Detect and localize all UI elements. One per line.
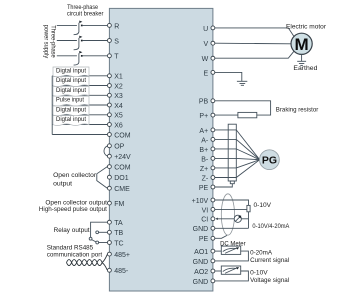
wire A- to PG [215, 139, 260, 159]
terminal Z- [211, 176, 215, 180]
digital input bus [51, 76, 53, 135]
terminal X6 [107, 123, 111, 127]
svg-text:GND: GND [193, 226, 209, 233]
current source meter [234, 215, 241, 222]
svg-text:485-: 485- [114, 268, 129, 275]
svg-text:communication port: communication port [47, 252, 103, 259]
right terminals circles [211, 26, 215, 283]
terminal TB [107, 230, 111, 234]
left terminal labels [114, 23, 131, 275]
wire B+ to PG [215, 149, 260, 160]
svg-text:0-10V/4-20mA: 0-10V/4-20mA [252, 223, 289, 230]
banner Digtal input X2 [53, 77, 89, 87]
wire resistor to GND [248, 212, 250, 229]
svg-text:Braking resistor: Braking resistor [276, 107, 319, 114]
terminal COM [107, 133, 111, 137]
wire P+ [215, 114, 238, 116]
shield stub [230, 181, 234, 184]
svg-text:Relay output: Relay output [54, 227, 90, 234]
wire CI [217, 218, 235, 220]
CI arrowhead [215, 218, 217, 220]
terminal GND3 [211, 279, 215, 283]
terminal PE [211, 185, 215, 189]
wire E to earth [215, 72, 242, 81]
svg-text:CME: CME [114, 186, 130, 193]
terminal FM [107, 201, 111, 205]
wire Z+ to PG [215, 160, 260, 168]
svg-text:V: V [204, 41, 209, 48]
wire U to motor [215, 28, 294, 37]
wire S supply [57, 40, 77, 42]
svg-text:CI: CI [201, 217, 208, 224]
terminal X4 [107, 103, 111, 107]
inverter main block U1 [109, 8, 212, 291]
svg-text:P+: P+ [199, 113, 208, 120]
meter box AO2 [221, 266, 240, 274]
terminal PB [211, 99, 215, 103]
svg-text:AO2: AO2 [194, 269, 208, 276]
terminal U [211, 26, 215, 30]
terminal AO2 [211, 269, 215, 273]
electric motor M [291, 33, 312, 54]
terminal 485+ [107, 252, 111, 256]
svg-text:0-10V: 0-10V [250, 269, 268, 276]
wire COM [52, 134, 107, 136]
svg-text:R: R [114, 23, 119, 30]
encoder PG [260, 150, 280, 170]
wire to 485- [102, 263, 107, 270]
svg-text:+24V: +24V [114, 154, 131, 161]
svg-text:GND: GND [193, 259, 209, 266]
svg-text:circuit breaker: circuit breaker [67, 11, 104, 18]
svg-text:COM: COM [114, 132, 131, 139]
svg-text:Pulse input: Pulse input [56, 97, 84, 104]
svg-text:B+: B+ [199, 147, 208, 154]
svg-text:AO1: AO1 [194, 249, 208, 256]
svg-text:TC: TC [114, 240, 123, 247]
svg-text:VI: VI [202, 207, 209, 214]
svg-text:0-10V: 0-10V [254, 202, 272, 209]
wire PE to cable loop [215, 235, 227, 238]
svg-text:COM: COM [114, 165, 131, 172]
terminal T [107, 54, 111, 58]
wire PE to shield [215, 184, 232, 187]
svg-text:DO1: DO1 [114, 175, 129, 182]
svg-text:Current signal: Current signal [250, 257, 289, 264]
wire AO2 to GND [215, 271, 249, 281]
terminal X5 [107, 113, 111, 117]
svg-text:PE: PE [199, 185, 209, 192]
terminal V [211, 41, 215, 45]
svg-text:PE: PE [199, 236, 209, 243]
svg-text:Earthed: Earthed [293, 65, 317, 72]
wire X4 [52, 104, 107, 106]
wire X5 [52, 114, 107, 116]
brace COM DO1 CME [97, 167, 108, 189]
svg-text:485+: 485+ [114, 252, 130, 259]
svg-text:PB: PB [199, 99, 209, 106]
svg-text:Digtal input: Digtal input [56, 68, 86, 75]
terminal PE2 [211, 236, 215, 240]
svg-text:PG: PG [262, 155, 277, 167]
svg-text:Voltage signal: Voltage signal [250, 277, 289, 284]
wire S to terminal [83, 40, 108, 42]
terminal X3 [107, 93, 111, 97]
terminal B- [211, 156, 215, 160]
wire AO1 [215, 250, 221, 252]
svg-text:output: output [53, 180, 72, 187]
motor ground [297, 54, 306, 65]
svg-text:S: S [114, 38, 119, 45]
label Three-phase power supply (rotated) [42, 25, 56, 59]
breaker pole T [74, 51, 83, 65]
terminal CME [107, 186, 111, 190]
wire X3 [52, 94, 107, 96]
jumper OP to +24V [104, 146, 108, 156]
terminal W [211, 56, 215, 60]
svg-text:Open collector: Open collector [53, 172, 97, 179]
potentiometer resistor [247, 205, 250, 211]
wire R to terminal [83, 24, 108, 26]
svg-text:Electric motor: Electric motor [286, 24, 327, 31]
svg-text:Three-phase: Three-phase [50, 25, 57, 58]
svg-text:B-: B- [201, 156, 209, 163]
svg-text:Z-: Z- [202, 175, 209, 182]
terminal DO1 [107, 175, 111, 179]
wire PB [215, 101, 271, 115]
right terminal labels [192, 26, 209, 286]
svg-text:X2: X2 [114, 83, 123, 90]
wire W to motor [215, 51, 294, 58]
svg-text:+10V: +10V [192, 198, 209, 205]
terminal B+ [211, 147, 215, 151]
svg-text:X6: X6 [114, 122, 123, 129]
terminal GND2 [211, 259, 215, 263]
earth ground E [237, 81, 247, 85]
terminal TC [107, 241, 111, 245]
wire TB [99, 231, 108, 233]
svg-text:High-speed pulse output: High-speed pulse output [39, 206, 107, 213]
terminal GND [211, 226, 215, 230]
svg-text:T: T [114, 54, 119, 61]
svg-text:Digtal input: Digtal input [56, 116, 86, 123]
svg-text:TA: TA [114, 220, 123, 227]
terminal E [211, 70, 215, 74]
terminal CI [211, 217, 215, 221]
terminal A- [211, 137, 215, 141]
svg-text:X1: X1 [114, 74, 123, 81]
wire V to motor [215, 42, 291, 45]
terminal R [107, 23, 111, 27]
terminal COM2 [107, 165, 111, 169]
wire to 485+ [102, 255, 107, 263]
shielded cable loop ellipse [221, 194, 234, 235]
terminal AO1 [211, 249, 215, 253]
svg-text:power supply: power supply [42, 25, 49, 59]
wire GND [215, 227, 249, 229]
svg-text:X5: X5 [114, 113, 123, 120]
svg-text:GND: GND [193, 279, 209, 286]
banner Digtal input X1 [53, 67, 89, 77]
terminal X2 [107, 84, 111, 88]
terminal A+ [211, 128, 215, 132]
terminal OP [107, 144, 111, 148]
svg-text:0-20mA: 0-20mA [250, 249, 272, 256]
banner Digtal input X3 [53, 87, 89, 97]
wire meter to node [241, 218, 248, 220]
terminal TA [107, 220, 111, 224]
terminal P+ [211, 113, 215, 117]
svg-text:U: U [203, 26, 208, 33]
banner Digtal input X6 [53, 116, 89, 126]
svg-text:E: E [204, 70, 209, 77]
wire Z- to PG [215, 160, 260, 178]
wire T supply [57, 55, 77, 57]
meter box AO1 [221, 246, 240, 254]
svg-text:A+: A+ [199, 128, 208, 135]
svg-text:Standard RS485: Standard RS485 [47, 245, 94, 252]
terminal VI [211, 207, 215, 211]
terminal 485- [107, 268, 111, 272]
svg-text:Digtal input: Digtal input [56, 87, 86, 94]
svg-text:Z+: Z+ [200, 166, 208, 173]
wire R supply [57, 24, 77, 26]
svg-text:Digtal input: Digtal input [56, 107, 86, 114]
twisted pair wire a [67, 260, 103, 266]
relay output wiring [91, 222, 108, 237]
svg-text:TB: TB [114, 230, 123, 237]
relay pivot contact [89, 237, 92, 240]
svg-text:Digtal input: Digtal input [56, 77, 86, 84]
terminal X1 [107, 74, 111, 78]
encoder cable shield [228, 124, 236, 181]
twisted pair wire b [67, 260, 103, 266]
wire T to terminal [83, 55, 108, 57]
terminal Z+ [211, 166, 215, 170]
svg-text:X4: X4 [114, 103, 123, 110]
svg-text:OP: OP [114, 144, 124, 151]
wire B- to PG [215, 158, 260, 159]
wire X1 [52, 75, 107, 77]
wire X2 [52, 85, 107, 87]
terminal S [107, 39, 111, 43]
wire X6 [52, 124, 107, 126]
wire A+ to PG [215, 130, 260, 160]
breaker pole S [74, 36, 83, 50]
terminal +10V [211, 198, 215, 202]
banner Digtal input X5 [53, 106, 89, 116]
svg-text:M: M [295, 35, 309, 54]
wire AO1 to GND [215, 251, 249, 261]
terminal +24V [107, 154, 111, 158]
wire VI wiper [215, 208, 247, 210]
breaker pole R [74, 21, 83, 35]
relay contact TB [96, 231, 99, 234]
relay contact TC [96, 241, 99, 244]
svg-text:W: W [202, 56, 209, 63]
svg-text:X3: X3 [114, 93, 123, 100]
svg-text:A-: A- [201, 137, 209, 144]
relay blade [92, 240, 96, 242]
wire AO2 [215, 270, 221, 272]
left terminals circles [107, 23, 111, 272]
braking resistor [238, 112, 257, 117]
wire +10V [215, 200, 249, 205]
svg-text:FM: FM [114, 201, 124, 208]
banner Pulse input X4 [53, 96, 89, 106]
wire TC [99, 242, 108, 244]
